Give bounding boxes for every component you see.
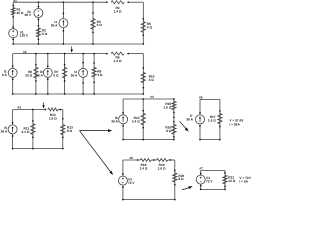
wire: circuit 4 bottom rail (123, 139, 174, 141)
wire: circuit 3 top rail (left of R12) (13, 109, 46, 111)
resistor R4 1.4 Ohm (series, top rail) (106, 1, 129, 14)
wire: circuit 2 top rail (left of R9) (13, 53, 107, 55)
svg-text:1.6 Ω: 1.6 Ω (164, 105, 172, 109)
wire: circuit 4 top rail (123, 98, 174, 100)
wire: circuit 1 right branch (142, 2, 144, 44)
svg-text:36 A: 36 A (71, 74, 78, 78)
svg-text:72 V: 72 V (206, 179, 213, 183)
arrow: from circuit 4 to circuit 5 (180, 121, 189, 131)
resistor R14 2.4 Ohm (132, 98, 146, 140)
resistor R19 1.6 Ohm (series) (157, 159, 172, 171)
wire: circuit 7 right branch (224, 170, 226, 189)
resistor R3 6 Ohm (91, 1, 102, 45)
junction between R15 and R16 (173, 112, 175, 119)
resistor R8 4 Ohm (92, 53, 103, 95)
wire: circuit 6 top rail (between R18 and R19) (151, 159, 156, 161)
voltage source V1 120 V (9, 26, 29, 40)
wire: circuit 7 left branch (200, 170, 202, 189)
wire: circuit 6 bottom rail (123, 199, 175, 201)
junction: circuit 2 bottom corners (12, 93, 144, 95)
current source I5 36 A (1, 122, 17, 137)
wire: circuit 1 bottom rail (13, 43, 143, 45)
junction: circuit 5 bottom corners (199, 139, 221, 141)
current source I6 36 A (111, 112, 127, 127)
node label #4 (150, 95, 154, 99)
wire: branch I1 (62, 2, 64, 44)
annotation: I = 6 A result (239, 180, 248, 184)
wire: circuit 3 top rail (right of R12) (58, 109, 63, 111)
resistor R15 1.6 Ohm (164, 98, 177, 110)
wire: circuit 1 top rail (right of R4) (128, 1, 143, 3)
svg-text:2.4 Ω: 2.4 Ω (132, 119, 140, 123)
junction: circuit 4 bottom corners (122, 139, 174, 141)
svg-text:2.4 Ω: 2.4 Ω (22, 130, 30, 134)
resistor R21 12 Ohm (223, 172, 236, 187)
svg-text:I = 36A: I = 36A (229, 123, 240, 127)
resistor R9 1.4 Ohm (series, top rail) (106, 52, 129, 63)
resistor R12 1.6 Ohm (series, top rail) (45, 108, 62, 120)
resistor R5 4 Ohm (141, 18, 152, 36)
wire: branch V2-R2 (37, 2, 39, 44)
arrow: step from circuit 1 to circuit 2 (70, 46, 73, 52)
voltage source V3 72 V (118, 173, 135, 188)
wire: circuit 7 top rail (201, 169, 225, 171)
junction: circuit 6 bottom corners (122, 199, 176, 201)
svg-text:1.6 Ω: 1.6 Ω (158, 166, 166, 170)
svg-text:8 Ω: 8 Ω (178, 177, 184, 181)
svg-text:36 A: 36 A (186, 117, 193, 121)
arrow: from circuit 3 to circuit 6 (79, 131, 113, 175)
resistor R1 20 Ohm (11, 5, 24, 18)
wire: circuit 2 top rail (right of R9) (128, 53, 143, 55)
current source I2 6 A (2, 65, 17, 80)
svg-text:36 A: 36 A (111, 119, 118, 123)
annotation: V = 57.6 V result (229, 119, 244, 123)
resistor R18 2.4 Ohm (series) (137, 159, 155, 171)
resistor R20 8 Ohm (173, 170, 185, 186)
wire: circuit 7 bottom rail (201, 188, 225, 190)
arrow: from circuit 3 to circuit 4 (79, 129, 112, 132)
wire: branch R14 (142, 99, 144, 140)
current source I1 36 A (51, 1, 68, 45)
wire: circuit 4 left branch (122, 99, 124, 140)
wire: circuit 5 left branch (199, 99, 201, 139)
svg-text:6 A: 6 A (2, 73, 8, 77)
junction: circuit 3 bottom corners (12, 148, 64, 150)
wire: circuit 3 left branch (12, 110, 14, 149)
wire: branch R8 (93, 54, 95, 94)
svg-text:2.4 Ω: 2.4 Ω (140, 166, 148, 170)
junction: circuit 1 bottom corners (12, 43, 144, 45)
wire: circuit 6 left branch (122, 160, 124, 200)
wire: circuit 5 top rail (200, 98, 220, 100)
wire: circuit 1 left branch (12, 2, 14, 44)
svg-text:4 Ω: 4 Ω (97, 73, 103, 77)
svg-text:4 Ω: 4 Ω (149, 78, 155, 82)
svg-text:8 Ω: 8 Ω (67, 129, 73, 133)
wire: branch I3 (47, 54, 49, 94)
svg-text:12 Ω: 12 Ω (228, 179, 235, 183)
svg-text:5 Ω: 5 Ω (53, 74, 59, 78)
svg-text:4 Ω: 4 Ω (147, 26, 153, 30)
svg-text:60 V: 60 V (25, 13, 32, 17)
svg-text:1.6 Ω: 1.6 Ω (49, 116, 57, 120)
junction: circuit 7 bottom corners (200, 189, 226, 191)
voltage source V2 60 V (25, 1, 43, 20)
svg-text:12 A: 12 A (36, 74, 43, 78)
svg-text:36 A: 36 A (51, 23, 58, 27)
svg-text:120 V: 120 V (20, 34, 29, 38)
current source I7 36 A (186, 112, 204, 127)
node label #5 (199, 95, 203, 99)
wire: branch R11 (32, 110, 34, 149)
resistor R6 20 Ohm (25, 53, 38, 95)
svg-text:1.4 Ω: 1.4 Ω (114, 10, 122, 14)
svg-text:72 V: 72 V (128, 181, 135, 185)
annotation: I = 36 A result (229, 123, 240, 127)
wire: branch R3 (92, 2, 94, 44)
svg-text:8 Ω: 8 Ω (166, 129, 172, 133)
wire: circuit 2 bottom rail (13, 93, 144, 95)
node label #7 (199, 167, 203, 171)
svg-text:5 Ω: 5 Ω (42, 32, 48, 36)
svg-text:#5: #5 (199, 95, 203, 99)
svg-text:1.4 Ω: 1.4 Ω (114, 59, 122, 63)
arrow: step from circuit 2 to circuit 3 (42, 103, 45, 109)
current source I3 12 A (36, 53, 52, 95)
node label #2 (23, 50, 27, 54)
svg-text:I = 6A: I = 6A (239, 180, 248, 184)
voltage source V4 72 V (196, 173, 213, 187)
wire: circuit 1 top rail (left of R4) (13, 1, 107, 3)
resistor R2 5 Ohm (36, 25, 47, 45)
wire: circuit 6 top rail (right of R19) (168, 159, 175, 161)
wire: branch R6 (35, 54, 37, 94)
wire: branch I4 (82, 54, 84, 94)
wire: circuit 2 right branch (142, 54, 144, 94)
wire: circuit 5 right branch (219, 99, 221, 139)
resistor R10 4 Ohm (141, 67, 155, 89)
node label #1 (13, 0, 17, 3)
wire: branch R7 (64, 54, 66, 94)
svg-text:20 Ω: 20 Ω (17, 11, 24, 15)
wire: circuit 6 right branch (174, 160, 176, 200)
wire: circuit 5 bottom rail (200, 139, 220, 141)
svg-text:20 Ω: 20 Ω (25, 74, 32, 78)
resistor R16 8 Ohm (165, 121, 176, 138)
wire: circuit 3 right branch (62, 110, 64, 149)
node label #3 (17, 106, 21, 110)
svg-text:36 A: 36 A (1, 130, 8, 134)
resistor R13 8 Ohm (61, 118, 73, 138)
wire: circuit 6 top rail (left of R18) (123, 159, 140, 161)
wire: circuit 4 right branch (173, 99, 175, 140)
svg-text:1.6 Ω: 1.6 Ω (208, 119, 216, 123)
resistor R11 2.4 Ohm (22, 109, 36, 150)
wire: circuit 3 bottom rail (13, 148, 63, 150)
node label #6 (129, 156, 133, 160)
svg-text:#6: #6 (129, 156, 133, 160)
annotation: V = 72 V result (239, 176, 251, 180)
resistor R7 5 Ohm (53, 53, 66, 95)
current source I4 36 A (71, 53, 88, 95)
wire: circuit 2 left branch (12, 54, 14, 94)
arrow: from circuit 6 to circuit 7 (182, 186, 193, 189)
resistor R17 1.6 Ohm (208, 110, 222, 127)
svg-text:6 Ω: 6 Ω (97, 23, 103, 27)
